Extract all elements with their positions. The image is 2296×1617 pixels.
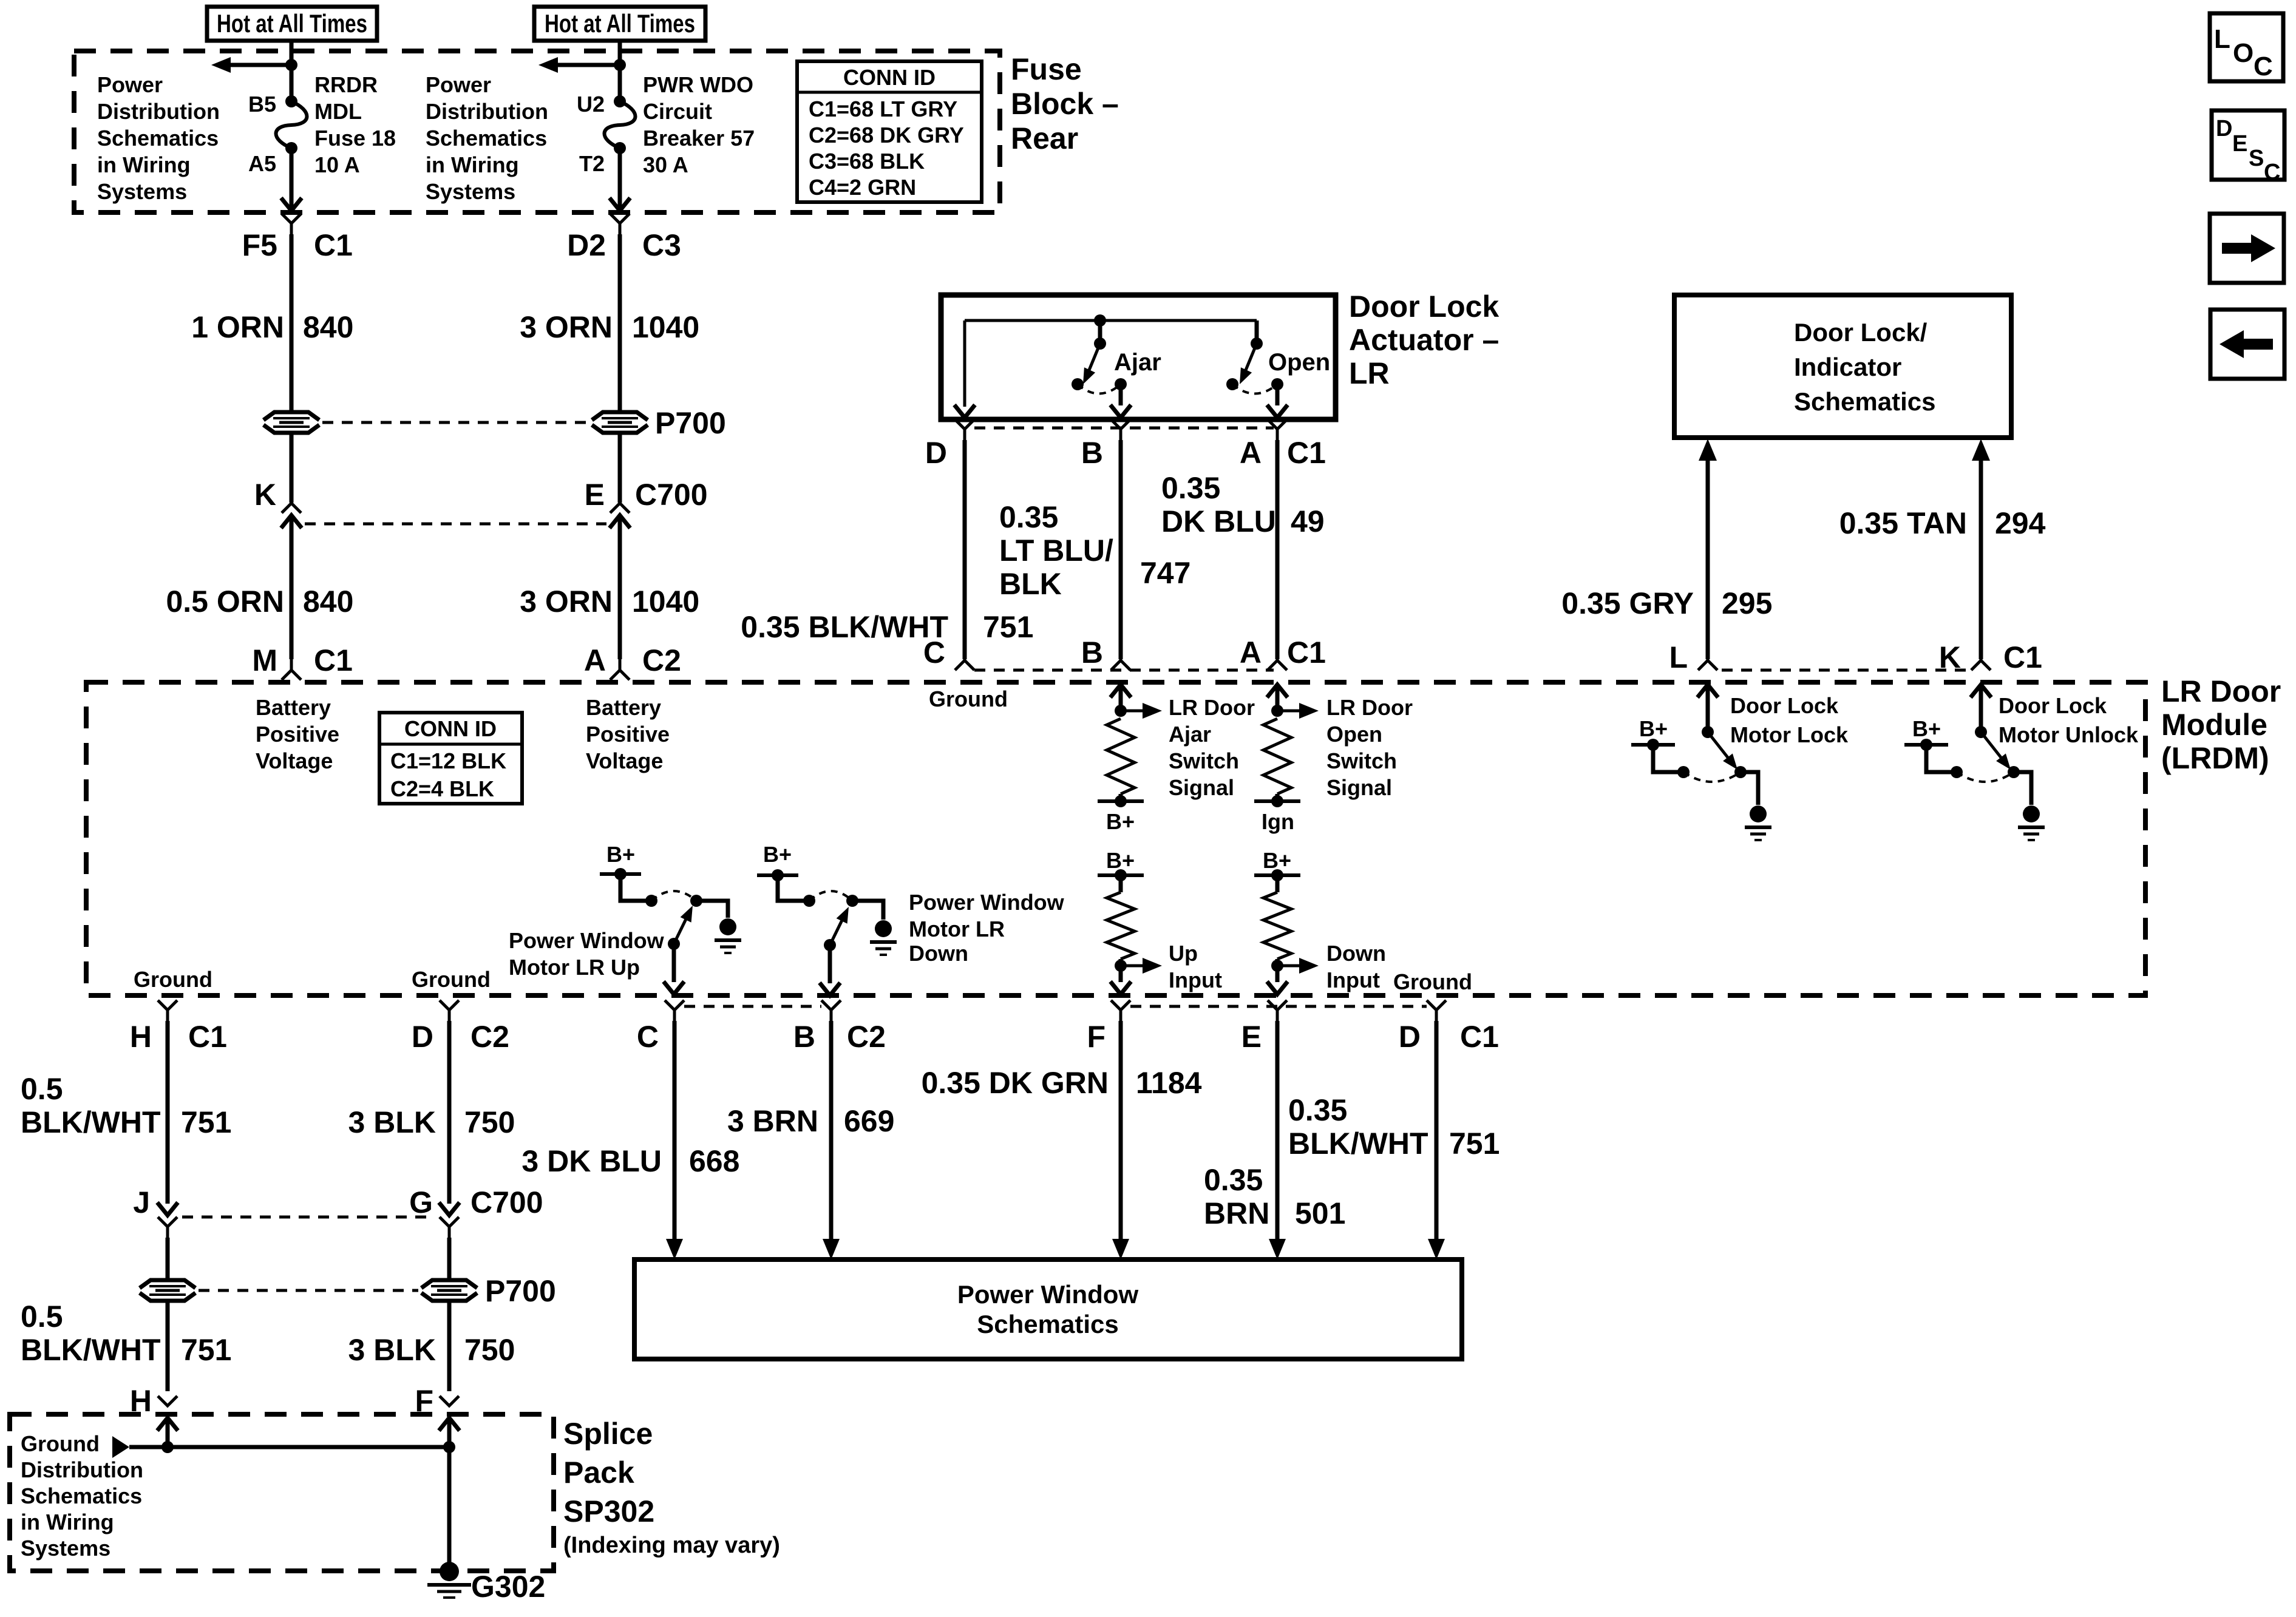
wire C circuit 668 bbox=[666, 1021, 683, 1259]
svg-text:1040: 1040 bbox=[632, 310, 699, 344]
svg-text:Signal: Signal bbox=[1169, 775, 1234, 800]
svg-text:O: O bbox=[2233, 38, 2254, 68]
splice bus wire bbox=[129, 1445, 449, 1449]
svg-text:F: F bbox=[1087, 1020, 1106, 1054]
splice junction dot H bbox=[161, 1441, 174, 1453]
wire W1 circuit 840 upper bbox=[290, 234, 294, 412]
hot at all times box 2 bbox=[534, 7, 705, 41]
svg-text:Door Lock: Door Lock bbox=[1730, 693, 1839, 718]
text B+ motor up bbox=[606, 842, 635, 867]
svg-text:PWR WDO: PWR WDO bbox=[643, 72, 753, 97]
svg-text:Systems: Systems bbox=[426, 179, 515, 204]
svg-text:295: 295 bbox=[1722, 586, 1772, 620]
down input wire to pin E bbox=[1267, 966, 1288, 994]
wire W1 fuse to edge bbox=[281, 148, 302, 211]
svg-text:668: 668 bbox=[689, 1144, 739, 1178]
nav box LOC bbox=[2210, 13, 2283, 81]
svg-text:3 BLK: 3 BLK bbox=[348, 1105, 436, 1139]
svg-text:Actuator –: Actuator – bbox=[1349, 323, 1499, 357]
svg-text:C2: C2 bbox=[642, 643, 681, 677]
svg-text:C1=12 BLK: C1=12 BLK bbox=[390, 748, 506, 773]
LRDM bottom pin E bbox=[1241, 1000, 1287, 1054]
text door lock actuator title bbox=[1349, 290, 1499, 390]
svg-text:Fuse 18: Fuse 18 bbox=[314, 126, 396, 151]
svg-text:1 ORN: 1 ORN bbox=[191, 310, 284, 344]
motor down B+ node bbox=[757, 869, 798, 881]
svg-text:Power Window: Power Window bbox=[509, 928, 665, 953]
label 0.35 DK GRN 1184 bbox=[922, 1066, 1202, 1100]
wire actuator A to LRDM A bbox=[1275, 440, 1280, 659]
LRDM bottom pin F bbox=[1087, 1000, 1130, 1054]
nav box arrow left bbox=[2210, 310, 2284, 379]
svg-text:Systems: Systems bbox=[21, 1536, 110, 1561]
text door lock indicator schematics bbox=[1794, 318, 1935, 416]
LRDM bottom pin H C1 bbox=[130, 1000, 227, 1054]
svg-text:1184: 1184 bbox=[1136, 1066, 1202, 1100]
svg-text:C1: C1 bbox=[1460, 1020, 1499, 1054]
splice bus entry arrow bbox=[112, 1436, 129, 1458]
text ground lower right bbox=[1393, 969, 1472, 994]
text ground distribution schematics bbox=[21, 1431, 143, 1561]
svg-text:Ajar: Ajar bbox=[1114, 349, 1161, 376]
text power distribution schematics 1 bbox=[97, 72, 220, 204]
svg-text:LR Door: LR Door bbox=[2161, 674, 2281, 708]
connector C700 pin J bbox=[133, 1185, 177, 1238]
svg-text:C1: C1 bbox=[1287, 436, 1326, 470]
svg-text:Ajar: Ajar bbox=[1169, 722, 1211, 747]
svg-text:Schematics: Schematics bbox=[426, 126, 547, 151]
LRDM C1 connector dashed line (C B A) bbox=[974, 669, 1274, 672]
svg-text:Hot at All Times: Hot at All Times bbox=[545, 9, 695, 38]
text splice pack SP302 bbox=[563, 1417, 780, 1558]
connector pin D2 C3 bbox=[567, 214, 681, 262]
text B+ motor lock bbox=[1639, 716, 1668, 741]
LRDM pin L bbox=[1669, 640, 1717, 674]
svg-text:C3=68 BLK: C3=68 BLK bbox=[809, 149, 925, 174]
wire W2 to C700 bbox=[618, 433, 622, 503]
label 3 ORN 1040 lower bbox=[520, 585, 699, 619]
text door lock motor lock bbox=[1730, 693, 1849, 747]
svg-text:751: 751 bbox=[1449, 1127, 1500, 1161]
svg-text:A5: A5 bbox=[248, 151, 276, 176]
svg-text:Ground: Ground bbox=[1393, 969, 1472, 994]
svg-text:CONN ID: CONN ID bbox=[404, 716, 497, 741]
svg-text:Positive: Positive bbox=[586, 722, 670, 747]
conn id table fuse block bbox=[797, 61, 982, 202]
svg-text:840: 840 bbox=[303, 310, 353, 344]
motor up contact wire bbox=[620, 874, 657, 907]
motor unlock B+ node bbox=[1904, 739, 1948, 751]
svg-text:501: 501 bbox=[1295, 1196, 1345, 1230]
svg-text:D: D bbox=[925, 436, 947, 470]
svg-text:Distribution: Distribution bbox=[97, 99, 220, 124]
ajar switch output wire bbox=[1110, 384, 1131, 418]
open signal wire arrow up bbox=[1267, 685, 1288, 711]
svg-text:0.35: 0.35 bbox=[1204, 1163, 1263, 1197]
up input B+ terminal bbox=[1098, 869, 1144, 892]
arrow to power distribution 2 bbox=[538, 57, 620, 73]
svg-text:C700: C700 bbox=[635, 478, 708, 512]
C700 linking dashed line bbox=[305, 523, 606, 526]
svg-text:H: H bbox=[130, 1020, 152, 1054]
svg-text:M: M bbox=[252, 643, 277, 677]
ground motor lock bbox=[1745, 805, 1771, 840]
svg-text:3 DK BLU: 3 DK BLU bbox=[521, 1144, 662, 1178]
text power window motor LR down bbox=[909, 890, 1065, 966]
connector pin M C1 into LRDM bbox=[252, 643, 353, 680]
svg-text:C: C bbox=[637, 1020, 659, 1054]
text B+ motor down bbox=[763, 842, 792, 867]
svg-text:Down: Down bbox=[1326, 941, 1386, 966]
svg-text:Input: Input bbox=[1326, 968, 1380, 992]
svg-text:3 ORN: 3 ORN bbox=[520, 585, 613, 619]
ajar switch contacts and throw arc bbox=[1072, 378, 1127, 394]
wire H circuit 751 upper bbox=[157, 1021, 178, 1215]
label P700 lower bbox=[485, 1274, 556, 1308]
connector pin A C2 into LRDM bbox=[584, 643, 681, 680]
text B+ motor unlock bbox=[1912, 716, 1941, 741]
text G302 bbox=[471, 1570, 545, 1604]
svg-text:C2: C2 bbox=[470, 1020, 509, 1054]
svg-text:Door Lock: Door Lock bbox=[1999, 693, 2107, 718]
svg-text:10 A: 10 A bbox=[314, 152, 360, 177]
text ground lower left 1 bbox=[134, 967, 212, 992]
connector C700 pin E bbox=[585, 478, 708, 528]
svg-text:C: C bbox=[923, 636, 945, 670]
text fuse block - rear title bbox=[1011, 52, 1119, 155]
text B+ down input bbox=[1263, 848, 1291, 873]
text power window schematics bbox=[957, 1280, 1139, 1338]
svg-text:3 ORN: 3 ORN bbox=[520, 310, 613, 344]
svg-text:Indicator: Indicator bbox=[1794, 353, 1901, 381]
wire W2 circuit 1040 lower bbox=[618, 515, 622, 659]
connector pin F5 C1 bbox=[242, 214, 353, 262]
power window schematics box bbox=[634, 1259, 1462, 1359]
splice pack pin F bbox=[415, 1384, 459, 1418]
svg-text:Input: Input bbox=[1169, 968, 1222, 992]
svg-text:0.35: 0.35 bbox=[999, 500, 1058, 534]
svg-text:B: B bbox=[793, 1020, 815, 1054]
open signal output arrow bbox=[1277, 703, 1319, 719]
motor lock contact wire bbox=[1653, 745, 1690, 778]
circuit breaker 57 symbol bbox=[605, 95, 636, 154]
svg-text:Battery: Battery bbox=[586, 695, 661, 720]
up input output arrow bbox=[1121, 958, 1162, 974]
wire to ground G302 bbox=[447, 1447, 452, 1562]
svg-text:750: 750 bbox=[464, 1105, 515, 1139]
actuator bus junction dot bbox=[1094, 314, 1106, 327]
wire W2 hot feed segment bbox=[618, 41, 622, 101]
svg-text:Power Window: Power Window bbox=[957, 1280, 1139, 1309]
svg-text:A: A bbox=[1240, 436, 1262, 470]
wire K to indicator box with arrow bbox=[1972, 439, 1990, 659]
text LR door module title bbox=[2161, 674, 2281, 775]
svg-text:D: D bbox=[412, 1020, 433, 1054]
motor lock pivot dot bbox=[1702, 726, 1714, 738]
motor down ground wire bbox=[852, 901, 883, 920]
svg-text:1040: 1040 bbox=[632, 585, 699, 619]
svg-text:Ign: Ign bbox=[1262, 809, 1294, 834]
text LR door ajar switch signal bbox=[1169, 695, 1255, 800]
wire H circuit 751 lower bbox=[166, 1301, 170, 1391]
svg-text:49: 49 bbox=[1291, 504, 1325, 538]
wire D to P700 bbox=[447, 1238, 452, 1280]
resistor ajar switch signal bbox=[1107, 719, 1135, 794]
svg-text:Battery: Battery bbox=[256, 695, 331, 720]
svg-text:B+: B+ bbox=[763, 842, 792, 867]
svg-text:3 BRN: 3 BRN bbox=[727, 1104, 818, 1138]
svg-text:SP302: SP302 bbox=[563, 1494, 654, 1528]
door lock indicator schematics box bbox=[1674, 295, 2011, 438]
svg-text:751: 751 bbox=[181, 1105, 231, 1139]
wire W1 to C700 bbox=[290, 433, 294, 503]
motor unlock wire from pin K bbox=[1971, 685, 1991, 732]
LRDM bottom pin D C1 bbox=[1399, 1000, 1499, 1054]
ground G302 symbol bbox=[427, 1562, 471, 1598]
ajar switch common stub bbox=[1094, 320, 1106, 350]
svg-text:Breaker 57: Breaker 57 bbox=[643, 126, 755, 151]
svg-text:Ground: Ground bbox=[134, 967, 212, 992]
svg-text:CONN ID: CONN ID bbox=[843, 65, 936, 90]
text Open bbox=[1268, 349, 1330, 376]
wire F into splice pack bbox=[439, 1418, 460, 1447]
svg-text:Distribution: Distribution bbox=[21, 1457, 143, 1482]
svg-text:in Wiring: in Wiring bbox=[21, 1510, 114, 1534]
svg-text:Rear: Rear bbox=[1011, 121, 1078, 155]
svg-text:C2=4 BLK: C2=4 BLK bbox=[390, 776, 494, 801]
svg-text:P700: P700 bbox=[655, 406, 726, 440]
svg-text:(Indexing may vary): (Indexing may vary) bbox=[563, 1533, 780, 1558]
svg-text:J: J bbox=[133, 1185, 150, 1219]
open switch output wire bbox=[1267, 384, 1288, 418]
svg-text:294: 294 bbox=[1995, 506, 2046, 540]
svg-text:C700: C700 bbox=[470, 1185, 543, 1219]
text ground lower left 2 bbox=[412, 967, 491, 992]
svg-text:Splice: Splice bbox=[563, 1417, 653, 1451]
svg-text:B+: B+ bbox=[1639, 716, 1668, 741]
svg-text:0.35: 0.35 bbox=[1288, 1093, 1347, 1127]
svg-text:B5: B5 bbox=[248, 92, 276, 117]
actuator pin B bbox=[1081, 419, 1130, 470]
svg-text:G302: G302 bbox=[471, 1570, 545, 1604]
motor lock ground wire bbox=[1741, 772, 1758, 805]
svg-text:G: G bbox=[409, 1185, 433, 1219]
svg-text:B+: B+ bbox=[1106, 848, 1135, 873]
svg-text:C: C bbox=[2264, 160, 2280, 185]
label 0.35 GRY 295 bbox=[1561, 586, 1772, 620]
svg-text:BLK/WHT: BLK/WHT bbox=[1288, 1127, 1428, 1161]
actuator pin D bbox=[925, 419, 974, 470]
hot at all times box 1 bbox=[207, 7, 377, 41]
wire W1 circuit 840 lower bbox=[290, 515, 294, 659]
connector C700 pin K bbox=[254, 478, 302, 528]
junction dot W1 feed bbox=[285, 59, 297, 71]
text fuse 18 name bbox=[314, 72, 396, 177]
P700 lower linking dashed line bbox=[199, 1289, 418, 1292]
connector C700 pin G bbox=[409, 1185, 543, 1238]
text door lock motor unlock bbox=[1999, 693, 2139, 747]
motor up B+ node bbox=[600, 868, 641, 880]
ajar switch blade bbox=[1083, 344, 1100, 384]
LRDM bottom pin D C2 bbox=[412, 1000, 509, 1054]
svg-text:0.35 BLK/WHT: 0.35 BLK/WHT bbox=[741, 610, 948, 644]
open switch common stub bbox=[1251, 320, 1263, 350]
inline connector P700 lower on H bbox=[140, 1280, 195, 1301]
arrow to power distribution 1 bbox=[211, 57, 291, 73]
LRDM C2 connector dashed line (C B) bbox=[684, 1005, 821, 1008]
svg-text:B+: B+ bbox=[606, 842, 635, 867]
label 3 BLK 750 lower bbox=[348, 1333, 515, 1367]
text Ajar bbox=[1114, 349, 1161, 376]
svg-text:0.5: 0.5 bbox=[21, 1300, 63, 1334]
ground motor up bbox=[715, 918, 741, 953]
svg-text:E: E bbox=[585, 478, 605, 512]
nav box arrow right bbox=[2210, 214, 2284, 283]
svg-text:C1: C1 bbox=[314, 228, 353, 262]
motor unlock switch blade bbox=[1981, 732, 2011, 770]
ajar signal wire arrow up bbox=[1110, 685, 1131, 711]
open switch blade bbox=[1240, 344, 1257, 384]
wire actuator D to LRDM C bbox=[963, 440, 967, 659]
wire W2 breaker to edge bbox=[610, 148, 630, 211]
svg-text:Schematics: Schematics bbox=[977, 1310, 1118, 1338]
LRDM pin K C1 bbox=[1939, 640, 2042, 674]
svg-text:DK BLU: DK BLU bbox=[1161, 504, 1276, 538]
svg-text:U2: U2 bbox=[577, 92, 605, 117]
svg-text:Power: Power bbox=[97, 72, 163, 97]
motor unlock right contact bbox=[2008, 766, 2020, 778]
svg-text:Up: Up bbox=[1169, 941, 1198, 966]
actuator pin A C1 bbox=[1240, 419, 1326, 470]
svg-text:LT BLU/: LT BLU/ bbox=[999, 534, 1113, 568]
motor lock wire from pin L bbox=[1697, 685, 1718, 732]
svg-text:840: 840 bbox=[303, 585, 353, 619]
door lock actuator box bbox=[941, 295, 1336, 419]
wire actuator B to LRDM B bbox=[1119, 440, 1123, 659]
text power window motor LR up bbox=[509, 928, 665, 980]
motor up right contact bbox=[690, 895, 702, 907]
svg-text:C3: C3 bbox=[642, 228, 681, 262]
svg-text:C1: C1 bbox=[2003, 640, 2042, 674]
LRDM bottom pin B C2 bbox=[793, 1000, 886, 1054]
svg-text:K: K bbox=[1939, 640, 1961, 674]
svg-text:Motor Lock: Motor Lock bbox=[1730, 722, 1849, 747]
svg-text:P700: P700 bbox=[485, 1274, 556, 1308]
text battery positive voltage 2 bbox=[586, 695, 670, 773]
ground motor unlock bbox=[2018, 805, 2045, 840]
ajar signal output arrow bbox=[1121, 703, 1162, 719]
svg-text:A: A bbox=[584, 643, 606, 677]
svg-text:0.35 GRY: 0.35 GRY bbox=[1561, 586, 1694, 620]
svg-text:Hot at All Times: Hot at All Times bbox=[217, 9, 367, 38]
motor down contact wire bbox=[778, 875, 815, 907]
splice junction dot F bbox=[443, 1441, 455, 1453]
svg-text:L: L bbox=[2214, 24, 2230, 54]
svg-text:Motor LR: Motor LR bbox=[909, 917, 1005, 941]
resistor open switch signal bbox=[1263, 719, 1291, 794]
open signal junction dot bbox=[1271, 705, 1283, 717]
svg-text:0.35: 0.35 bbox=[1161, 471, 1220, 505]
C700 lower linking dashed line bbox=[182, 1216, 434, 1219]
open resistor Ign terminal bbox=[1254, 794, 1300, 807]
svg-text:Block –: Block – bbox=[1011, 87, 1119, 121]
pin T2 label bbox=[579, 151, 605, 176]
pin B5 label bbox=[248, 92, 276, 117]
text up input bbox=[1169, 941, 1222, 992]
svg-text:A: A bbox=[1240, 636, 1262, 670]
resistor down input bbox=[1263, 892, 1291, 959]
open switch contacts and throw arc bbox=[1226, 378, 1283, 394]
ajar resistor B+ terminal bbox=[1098, 794, 1144, 807]
inline connector P700 lower on D bbox=[421, 1280, 477, 1301]
svg-text:750: 750 bbox=[464, 1333, 515, 1367]
wire D circuit 750 upper bbox=[439, 1021, 460, 1215]
wire W1 hot feed segment bbox=[290, 41, 294, 101]
label 3 ORN 1040 upper bbox=[520, 310, 699, 344]
text LR door open switch signal bbox=[1326, 695, 1413, 800]
inline connector P700 on W1 bbox=[263, 412, 319, 433]
down input output arrow bbox=[1277, 958, 1319, 974]
svg-text:C: C bbox=[2254, 52, 2273, 81]
svg-text:Ground: Ground bbox=[412, 967, 491, 992]
motor lock throw arc bbox=[1683, 772, 1741, 782]
svg-text:B: B bbox=[1081, 436, 1103, 470]
svg-text:E: E bbox=[1241, 1020, 1262, 1054]
svg-text:Systems: Systems bbox=[97, 179, 187, 204]
actuator internal bus wire bbox=[954, 320, 1257, 418]
svg-text:Schematics: Schematics bbox=[21, 1483, 142, 1508]
svg-text:669: 669 bbox=[844, 1104, 894, 1138]
actuator connector dashed line bbox=[974, 427, 1274, 430]
svg-text:0.5: 0.5 bbox=[21, 1072, 63, 1106]
conn id table LRDM bbox=[379, 713, 522, 804]
svg-text:Ground: Ground bbox=[929, 686, 1008, 711]
svg-text:Power Window: Power Window bbox=[909, 890, 1065, 915]
motor up wire to pin C bbox=[664, 944, 684, 994]
svg-text:B: B bbox=[1081, 636, 1103, 670]
svg-text:Door Lock: Door Lock bbox=[1349, 290, 1499, 324]
svg-text:C1: C1 bbox=[188, 1020, 227, 1054]
text B+ ajar bbox=[1106, 809, 1135, 834]
motor up ground wire bbox=[696, 901, 728, 918]
nav box DESC bbox=[2212, 110, 2284, 185]
svg-text:in Wiring: in Wiring bbox=[426, 152, 519, 177]
motor down switch blade bbox=[824, 907, 849, 951]
wire W2 circuit 1040 upper bbox=[618, 234, 622, 412]
label 0.5 ORN 840 bbox=[166, 585, 353, 619]
motor unlock ground wire bbox=[2014, 772, 2031, 805]
svg-text:B+: B+ bbox=[1106, 809, 1135, 834]
splice pack SP302 dashed outline bbox=[10, 1414, 554, 1571]
svg-text:F5: F5 bbox=[242, 228, 277, 262]
svg-text:C1: C1 bbox=[314, 643, 353, 677]
svg-text:Schematics: Schematics bbox=[97, 126, 219, 151]
LRDM bottom pin C bbox=[637, 1000, 684, 1054]
svg-text:(LRDM): (LRDM) bbox=[2161, 741, 2269, 775]
motor unlock pivot dot bbox=[1975, 726, 1987, 738]
wire D circuit 750 lower bbox=[447, 1301, 452, 1391]
svg-text:0.35 DK GRN: 0.35 DK GRN bbox=[922, 1066, 1109, 1100]
svg-text:751: 751 bbox=[181, 1333, 231, 1367]
motor lock B+ node bbox=[1631, 739, 1675, 751]
svg-text:Power: Power bbox=[426, 72, 491, 97]
text battery positive voltage 1 bbox=[256, 695, 339, 773]
label 0.35 BLK/WHT 751 bbox=[741, 610, 1033, 644]
motor lock switch blade bbox=[1708, 732, 1737, 770]
label 0.5 BLK/WHT 751 lower bbox=[21, 1300, 231, 1367]
svg-text:Switch: Switch bbox=[1169, 748, 1239, 773]
svg-text:Pack: Pack bbox=[563, 1456, 634, 1490]
